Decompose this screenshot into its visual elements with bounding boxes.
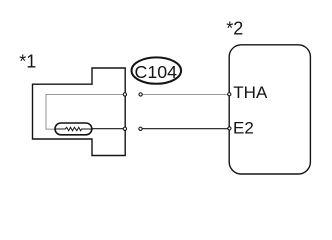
svg-text:E2: E2 — [233, 119, 254, 138]
svg-text:C104: C104 — [135, 62, 178, 82]
svg-text:*1: *1 — [19, 51, 36, 71]
svg-text:THA: THA — [233, 83, 268, 102]
svg-text:*2: *2 — [226, 18, 243, 38]
